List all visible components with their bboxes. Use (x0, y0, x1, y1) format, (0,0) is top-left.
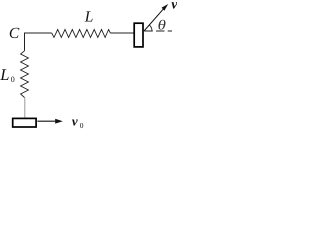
svg-text:0: 0 (80, 121, 84, 130)
svg-text:v: v (171, 0, 177, 13)
wire: spring L to right mass block (110, 32, 133, 34)
svg-text:L: L (0, 65, 9, 84)
dashed horizontal reference line (144, 30, 172, 32)
velocity vector v0 (horizontal arrow) (37, 119, 62, 124)
velocity vector v (arrow at angle theta) (144, 4, 168, 31)
svg-text:C: C (9, 25, 20, 42)
mass block (bottom, horizontal rectangle) (13, 118, 36, 127)
svg-text:v: v (72, 113, 78, 128)
svg-text:θ: θ (158, 18, 166, 33)
mass block (right, vertical rectangle) (134, 23, 143, 47)
wire: corner from C down-left vertical and top horizontal to spring L (25, 33, 52, 51)
svg-text:L: L (84, 8, 94, 25)
wire: spring L0 to bottom mass block (24, 98, 26, 118)
svg-text:0: 0 (11, 75, 15, 84)
angle arc theta (149, 25, 152, 31)
spring L0 (vertical zigzag) (21, 51, 29, 98)
spring L (horizontal zigzag) (52, 30, 111, 38)
